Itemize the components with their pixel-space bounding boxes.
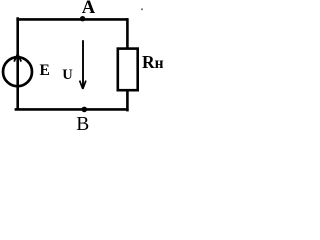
svg-text:E: E [40, 62, 50, 79]
svg-text:B: B [76, 114, 89, 135]
svg-text:U: U [62, 67, 73, 83]
svg-text:Rн: Rн [142, 52, 164, 72]
svg-text:A: A [82, 0, 96, 18]
